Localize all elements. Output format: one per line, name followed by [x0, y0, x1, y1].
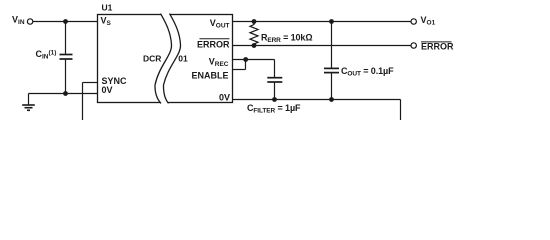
wire break curve left — [155, 14, 172, 104]
node junction VIN/CIN — [63, 19, 68, 24]
terminal VIN — [27, 19, 32, 24]
svg-text:DCR: DCR — [143, 54, 161, 64]
wire ENABLE tie — [233, 60, 246, 70]
node junction VREC/ENABLE — [243, 57, 248, 62]
wire VREC — [233, 60, 275, 78]
wire SYNC — [83, 83, 98, 121]
wire VIN to VS — [33, 21, 98, 23]
wire break curve right — [163, 14, 180, 104]
svg-text:ENABLE: ENABLE — [191, 71, 228, 81]
node junction CIN/0V — [63, 91, 68, 96]
op-amp U1 converter body — [98, 15, 233, 103]
wire 0V-left to ground — [29, 93, 98, 95]
capacitor CIN — [60, 22, 73, 94]
svg-text:ERROR: ERROR — [421, 42, 454, 52]
svg-text:U1: U1 — [102, 3, 113, 13]
svg-text:01: 01 — [178, 54, 188, 64]
capacitor CFILTER — [267, 78, 282, 100]
svg-text:0V: 0V — [219, 93, 230, 103]
wire VOUT to VO1 terminal — [233, 21, 411, 23]
terminal VO1 — [411, 19, 416, 24]
terminal ERROR — [411, 43, 416, 48]
capacitor COUT — [324, 19, 339, 102]
resistor RERR — [250, 19, 258, 48]
wire 0V right rail — [233, 100, 401, 121]
wire ERROR to terminal — [233, 45, 411, 47]
break gap white mask — [155, 13, 181, 104]
ground — [22, 94, 35, 111]
svg-text:0V: 0V — [102, 85, 113, 95]
svg-text:ERROR: ERROR — [197, 40, 230, 50]
node junction CFILTER/0V — [272, 97, 277, 102]
